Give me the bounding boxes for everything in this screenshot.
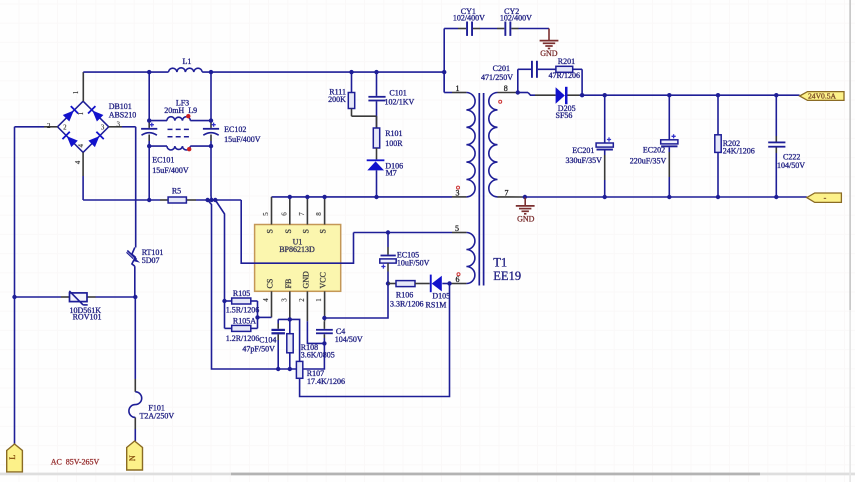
node bus C101: [374, 70, 378, 74]
svg-text:1: 1: [77, 112, 85, 116]
op-amp U1 BP86213D: [255, 225, 341, 292]
wire CS pin to sense resistors: [258, 316, 272, 318]
wire EC102 column: [210, 72, 212, 122]
svg-text:S: S: [266, 229, 275, 233]
diode D106: [367, 159, 385, 161]
svg-text:3: 3: [101, 124, 105, 132]
wire aux top pin5: [354, 232, 453, 234]
node EC105 top: [386, 230, 390, 234]
ground GND pin7: [523, 195, 527, 199]
svg-text:4: 4: [77, 143, 85, 147]
svg-text:5: 5: [262, 212, 270, 216]
node LF3 junctions: [147, 118, 151, 122]
wire aux bottom pin6: [451, 283, 466, 285]
node varistor-N junction: [133, 295, 137, 299]
svg-text:GND: GND: [301, 271, 310, 289]
transformer T1 core: [478, 93, 480, 286]
svg-text:SF56: SF56: [556, 111, 573, 120]
node D105 junction: [447, 281, 451, 285]
wire VCC feed crossing IC: [241, 200, 353, 263]
svg-text:17.4K/1206: 17.4K/1206: [307, 377, 345, 386]
wire N varistor rung: [15, 296, 62, 298]
connector 24V0.5A: [800, 92, 844, 101]
svg-text:24K/1206: 24K/1206: [723, 146, 755, 155]
varistor ROV101: [70, 293, 88, 302]
svg-text:C104: C104: [259, 335, 276, 344]
resistor R5: [168, 197, 186, 203]
capacitor EC101: [141, 128, 157, 130]
svg-text:S: S: [319, 229, 328, 233]
svg-text:S: S: [301, 229, 310, 233]
svg-text:2: 2: [298, 298, 306, 302]
wire secondary top pin8: [498, 92, 517, 94]
svg-text:R5: R5: [172, 187, 181, 196]
wire C201 branch: [517, 69, 519, 92]
wire diagonal to R105 column: [215, 200, 224, 328]
svg-text:3: 3: [456, 188, 460, 197]
svg-text:S: S: [284, 229, 293, 233]
node pin8 C201 branch: [516, 90, 520, 94]
svg-text:R105: R105: [233, 289, 250, 298]
svg-text:ROV101: ROV101: [73, 312, 102, 321]
svg-text:8: 8: [315, 212, 323, 216]
svg-text:D105: D105: [432, 292, 450, 301]
wire R111-C101 junction leads: [376, 116, 378, 128]
svg-text:1.2R/1206: 1.2R/1206: [226, 334, 260, 343]
capacitor EC102: [203, 128, 219, 130]
capacitor CY2: [504, 22, 506, 36]
bridge rectifier DB101: [58, 101, 109, 152]
node CS tap: [255, 315, 259, 319]
node D106 to primary return: [374, 195, 378, 199]
svg-text:AC 85V-265V: AC 85V-265V: [51, 457, 100, 466]
wire rail down to CS sense column: [208, 200, 325, 369]
svg-text:EC202: EC202: [643, 146, 665, 155]
node bus to transformer: [442, 70, 446, 74]
wire output negative rail: [525, 196, 807, 198]
svg-text:471/250V: 471/250V: [481, 73, 513, 82]
svg-text:6: 6: [456, 275, 460, 284]
wire L line: [14, 127, 16, 444]
node bus R111: [349, 70, 353, 74]
svg-text:47pF/50V: 47pF/50V: [242, 345, 275, 354]
connector L: [7, 444, 23, 472]
capacitor EC201: [604, 95, 606, 143]
svg-text:15uF/400V: 15uF/400V: [152, 166, 189, 175]
svg-text:C101: C101: [389, 89, 406, 98]
svg-text:RS1M: RS1M: [426, 301, 447, 310]
resistor R107: [296, 361, 302, 378]
svg-text:GND: GND: [540, 49, 558, 58]
svg-text:330uF/35V: 330uF/35V: [566, 156, 603, 165]
capacitor EC202: [668, 95, 670, 140]
wire output positive rail: [582, 94, 800, 96]
svg-text:104/50V: 104/50V: [777, 161, 805, 170]
svg-text:T1: T1: [493, 255, 507, 269]
wire N line: [135, 127, 137, 248]
svg-text:R101: R101: [385, 129, 402, 138]
svg-text:CS: CS: [266, 279, 275, 289]
thermistor RT101: [132, 248, 135, 267]
wire primary top: [443, 72, 445, 92]
svg-text:3: 3: [116, 121, 120, 129]
wire GND pin to C4: [307, 321, 324, 343]
node C4 bottom: [322, 341, 326, 345]
svg-text:1: 1: [315, 298, 323, 302]
svg-text:EE19: EE19: [493, 269, 521, 283]
svg-text:3.6K/0805: 3.6K/0805: [301, 350, 335, 359]
node D205 cathode junction: [580, 93, 584, 97]
bridge pin stubs: [82, 72, 84, 101]
diode D205: [556, 87, 565, 103]
wire EC102 column lower: [210, 196, 213, 200]
U1 top pin stubs: [271, 197, 273, 225]
svg-text:15uF/400V: 15uF/400V: [224, 135, 261, 144]
resistor R106: [388, 283, 396, 285]
resistor R108: [289, 321, 291, 333]
node R5 rail dots: [147, 198, 151, 202]
svg-text:102/400V: 102/400V: [453, 13, 485, 22]
wire primary ground rail: [83, 199, 160, 201]
wire primary bottom / drain bus: [452, 196, 466, 198]
svg-text:6: 6: [280, 212, 288, 216]
svg-text:ABS210: ABS210: [109, 110, 137, 119]
svg-text:4: 4: [74, 160, 82, 164]
connector N: [127, 441, 143, 470]
svg-text:5: 5: [455, 224, 459, 233]
wire secondary bottom pin7: [498, 196, 523, 198]
svg-text:5D07: 5D07: [142, 256, 160, 265]
svg-text:BP86213D: BP86213D: [279, 245, 315, 254]
svg-text:8: 8: [504, 84, 508, 93]
node R105 left: [222, 299, 226, 303]
wire EC101 column: [148, 72, 150, 122]
svg-text:1: 1: [456, 84, 460, 93]
svg-text:1.5R/1206: 1.5R/1206: [226, 305, 260, 314]
transformer T1 secondary winding: [489, 93, 498, 197]
node bus EC102: [209, 70, 213, 74]
svg-text:2: 2: [47, 122, 51, 130]
svg-text:47R/1206: 47R/1206: [549, 71, 581, 80]
svg-text:VCC: VCC: [319, 272, 328, 288]
node rail dots: [603, 93, 607, 97]
svg-text:2: 2: [63, 124, 67, 132]
svg-text:7: 7: [298, 212, 306, 216]
svg-text:R106: R106: [396, 290, 413, 299]
svg-text:4: 4: [262, 298, 270, 302]
svg-text:20mH L9: 20mH L9: [164, 106, 197, 115]
node EC105 bottom: [386, 281, 390, 285]
scrollbar right: [849, 0, 851, 482]
wire CY branch: [443, 29, 445, 93]
capacitor CY1: [466, 22, 468, 36]
wire VCC to EC105 bottom row: [324, 284, 388, 319]
svg-text:R105A: R105A: [233, 316, 256, 325]
node bus EC101: [147, 70, 151, 74]
wire FB node row: [278, 319, 299, 361]
choke LF3 top winding: [149, 120, 167, 122]
node varistor-L junction: [12, 295, 16, 299]
node drain bus dots: [288, 195, 292, 199]
svg-text:EC102: EC102: [224, 125, 246, 134]
svg-text:EC101: EC101: [152, 156, 174, 165]
svg-text:104/50V: 104/50V: [335, 335, 363, 344]
capacitor C201: [531, 61, 533, 78]
inductor L1: [169, 68, 203, 72]
resistor R101: [373, 128, 379, 148]
choke LF3 phase dots: [186, 114, 190, 118]
U1 bottom pin stubs: [271, 291, 273, 317]
svg-text:1: 1: [72, 90, 80, 94]
svg-text:L1: L1: [182, 57, 191, 66]
node VCC tap: [322, 316, 326, 320]
resistor R202: [717, 95, 719, 135]
svg-text:-: -: [824, 193, 827, 202]
svg-text:24V0.5A: 24V0.5A: [808, 92, 837, 101]
ground GND top: [540, 41, 559, 49]
svg-text:T2A/250V: T2A/250V: [140, 412, 175, 421]
wire bridge pin3 to N column: [122, 126, 136, 128]
svg-text:M7: M7: [386, 169, 397, 178]
svg-text:L: L: [8, 455, 17, 460]
fuse F101: [129, 392, 142, 418]
scrollbar bottom: [0, 473, 855, 476]
resistor R105: [225, 300, 232, 302]
node lower wire dots: [276, 367, 280, 371]
resistor R105A: [225, 327, 232, 329]
transformer T1 primary winding: [466, 93, 475, 197]
capacitor C101: [376, 72, 378, 96]
wire top DC bus: [83, 71, 168, 73]
svg-text:3: 3: [280, 298, 288, 302]
capacitor C104: [277, 319, 279, 323]
resistor R201: [556, 66, 573, 72]
connector minus: [807, 193, 842, 202]
svg-text:200K: 200K: [328, 95, 346, 104]
transformer T1 aux winding: [466, 233, 475, 284]
capacitor C222: [775, 95, 777, 136]
choke LF3 bottom winding: [149, 145, 167, 147]
svg-text:220uF/35V: 220uF/35V: [630, 157, 667, 166]
svg-text:7: 7: [505, 188, 509, 197]
diode D105: [430, 275, 432, 293]
choke LF3 core dashes: [168, 129, 190, 136]
svg-text:3.3R/1206: 3.3R/1206: [390, 300, 424, 309]
svg-text:EC201: EC201: [572, 146, 594, 155]
node FB tap: [288, 317, 292, 321]
svg-text:102/400V: 102/400V: [500, 13, 532, 22]
capacitor EC105: [387, 233, 389, 248]
capacitor C4: [323, 321, 325, 329]
transformer phase dots: [499, 100, 502, 103]
svg-text:FB: FB: [284, 279, 293, 289]
svg-text:10uF/50V: 10uF/50V: [397, 258, 430, 267]
svg-text:100R: 100R: [385, 139, 403, 148]
svg-text:N: N: [128, 455, 137, 461]
svg-text:102/1KV: 102/1KV: [385, 97, 415, 106]
svg-text:C201: C201: [493, 64, 510, 73]
resistor R111: [351, 72, 353, 92]
svg-text:R201: R201: [558, 57, 575, 66]
svg-text:GND: GND: [517, 215, 535, 224]
